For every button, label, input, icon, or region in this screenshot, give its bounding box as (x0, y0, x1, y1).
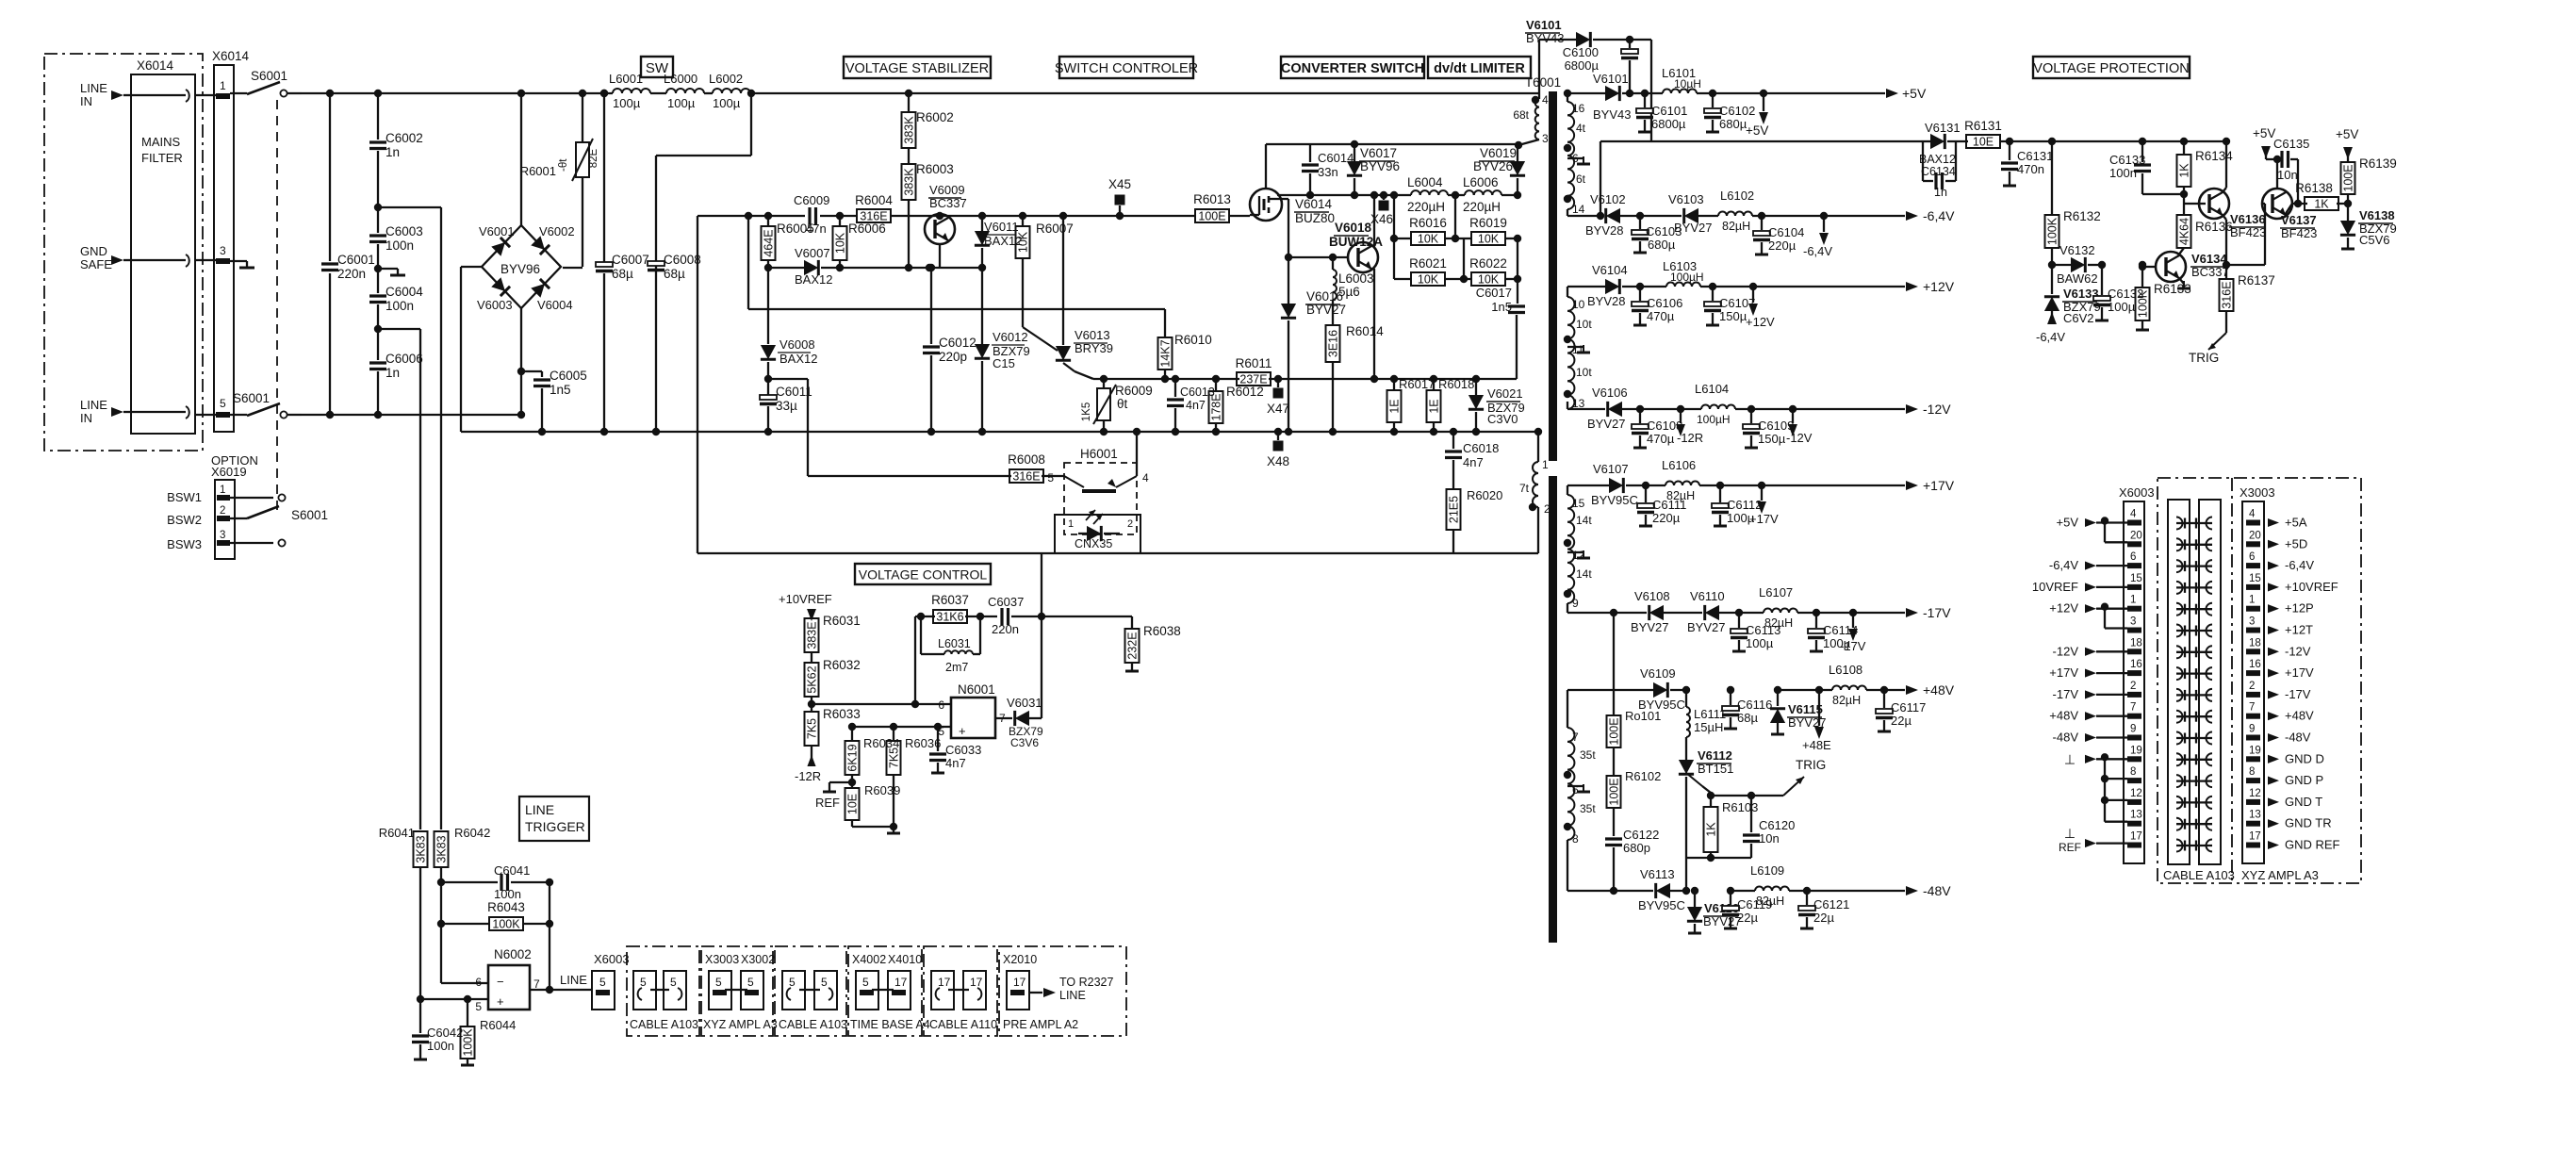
diode V6110 (1687, 589, 1739, 634)
svg-text:383K: 383K (903, 116, 916, 144)
svg-text:L6006: L6006 (1463, 175, 1499, 189)
svg-text:R6134: R6134 (2195, 149, 2233, 163)
svg-text:1: 1 (2130, 595, 2136, 606)
svg-text:R6017: R6017 (1399, 377, 1435, 391)
svg-text:Ro101: Ro101 (1625, 709, 1661, 723)
diode V6007 (768, 246, 840, 287)
svg-text:3: 3 (1542, 132, 1549, 145)
connector X6014 (212, 49, 250, 432)
X6014 pin 3 ground (230, 261, 254, 268)
secondary winding 15-9 (1564, 485, 1593, 613)
svg-text:100µ: 100µ (613, 96, 641, 110)
svg-text:22µ: 22µ (1737, 911, 1758, 925)
svg-text:L6109: L6109 (1750, 863, 1784, 878)
terminal X47 (1267, 375, 1289, 416)
svg-text:-12V: -12V (2053, 644, 2079, 658)
svg-text:2: 2 (2249, 681, 2255, 692)
svg-text:C6104: C6104 (1768, 225, 1804, 239)
resistor R6031 (805, 614, 861, 652)
svg-text:R6137: R6137 (2238, 273, 2275, 287)
svg-text:R6020: R6020 (1467, 488, 1502, 502)
optocoupler LED box CNX35 (1055, 510, 1140, 553)
svg-text:R6002: R6002 (916, 110, 954, 124)
svg-text:-6,4V: -6,4V (2285, 558, 2314, 572)
svg-text:C6007: C6007 (612, 253, 649, 267)
svg-text:SWITCH CONTROLER: SWITCH CONTROLER (1055, 61, 1198, 76)
bridge right wire (563, 267, 582, 269)
svg-text:TIME BASE A4: TIME BASE A4 (850, 1018, 930, 1031)
svg-text:10K: 10K (834, 232, 847, 254)
svg-text:470µ: 470µ (1647, 309, 1675, 323)
svg-text:220n: 220n (337, 267, 366, 281)
svg-text:+17V: +17V (2285, 665, 2314, 680)
svg-text:5: 5 (821, 976, 828, 989)
secondary winding 7-8 (1564, 690, 1597, 891)
svg-text:LINE: LINE (1059, 989, 1086, 1002)
svg-text:-12V: -12V (1786, 431, 1813, 445)
connector X6019 (215, 480, 235, 559)
resistor R6005 (762, 212, 814, 271)
wire protection row (2226, 204, 2265, 265)
svg-text:CONVERTER SWITCH: CONVERTER SWITCH (1281, 61, 1424, 76)
svg-text:10n: 10n (2277, 168, 2298, 182)
wire protection feed rail (1597, 141, 1921, 220)
connector row pin 8 (2127, 766, 2323, 787)
svg-text:10E: 10E (1973, 136, 1994, 149)
diode V6115 (1770, 686, 1827, 734)
svg-text:35t: 35t (1580, 802, 1596, 815)
svg-text:V6019: V6019 (1480, 146, 1517, 160)
svg-text:1: 1 (2249, 595, 2255, 606)
svg-text:17: 17 (894, 976, 908, 989)
inductor L6003 (1329, 254, 1374, 300)
svg-text:6: 6 (2249, 551, 2255, 563)
svg-text:220n: 220n (992, 622, 1019, 636)
svg-text:+5V: +5V (2336, 127, 2358, 141)
resistor R6136 (2177, 204, 2233, 255)
svg-text:5: 5 (789, 976, 796, 989)
feedback loop R6037 (915, 593, 997, 704)
svg-text:BYV95C: BYV95C (1638, 898, 1685, 912)
svg-text:R6008: R6008 (1008, 452, 1045, 467)
svg-text:15: 15 (1572, 497, 1585, 510)
svg-text:X3002: X3002 (741, 953, 775, 966)
svg-text:C6120: C6120 (1759, 818, 1795, 832)
svg-text:R6006: R6006 (848, 222, 886, 236)
-12R branch arrow (1676, 405, 1703, 445)
wire plus input row (848, 723, 951, 731)
svg-text:+5V: +5V (2057, 516, 2079, 530)
svg-text:+: + (497, 994, 504, 1009)
svg-text:18: 18 (2249, 637, 2261, 649)
svg-text:TRIG: TRIG (2189, 351, 2219, 365)
wire LED drive (1038, 553, 1045, 718)
svg-text:C3V0: C3V0 (1487, 412, 1518, 426)
-6.4V rail diode V6102 (1567, 192, 1640, 238)
svg-text:3K83: 3K83 (435, 835, 449, 862)
svg-text:3K83: 3K83 (415, 835, 428, 862)
connector box TIME BASE A4 (848, 946, 930, 1036)
svg-text:L6102: L6102 (1720, 189, 1754, 203)
capacitor C6119 (1722, 887, 1772, 928)
resistor R6022 (1445, 238, 1521, 287)
inductor L6106 (1646, 458, 1699, 502)
svg-text:6800µ: 6800µ (1565, 58, 1600, 73)
svg-text:4: 4 (1542, 93, 1549, 107)
svg-text:X4010: X4010 (888, 953, 922, 966)
+12V rail output (1700, 279, 1955, 294)
svg-text:19: 19 (2130, 745, 2142, 756)
svg-text:TRIG: TRIG (1796, 758, 1826, 772)
svg-text:V6136: V6136 (2230, 212, 2266, 226)
connector row pin 1 (2049, 595, 2313, 616)
-6.4V branch arrow (1803, 212, 1832, 258)
title LINE TRIGGER (519, 796, 589, 841)
svg-text:X2010: X2010 (1003, 953, 1037, 966)
capacitor C6117 (1876, 686, 1926, 731)
resistor R6139 (2336, 127, 2397, 204)
REF connection (815, 782, 852, 810)
svg-text:⊥: ⊥ (2064, 751, 2076, 766)
svg-text:9: 9 (2249, 724, 2255, 735)
X6019 pin 3 (217, 530, 286, 547)
svg-text:237E: 237E (1239, 373, 1267, 386)
svg-text:7K5: 7K5 (806, 718, 819, 739)
label BSW3 (167, 537, 202, 551)
svg-text:C6001: C6001 (337, 253, 375, 267)
svg-text:14: 14 (1572, 203, 1585, 216)
svg-text:R6036: R6036 (905, 736, 941, 750)
svg-text:V6104: V6104 (1592, 263, 1628, 277)
svg-text:X3003: X3003 (2240, 485, 2275, 500)
svg-text:V6009: V6009 (929, 183, 965, 197)
svg-text:GND REF: GND REF (2285, 838, 2340, 852)
svg-text:+5V: +5V (2253, 126, 2275, 140)
svg-text:13: 13 (2130, 810, 2142, 821)
svg-text:X3003: X3003 (705, 953, 739, 966)
svg-text:SAFE: SAFE (80, 257, 112, 271)
connector +5V jumper (2101, 517, 2127, 542)
svg-text:V6112: V6112 (1698, 748, 1732, 763)
X6014 pin 1 (195, 79, 230, 99)
svg-text:L6107: L6107 (1759, 585, 1793, 599)
connector row pin 2 (2053, 681, 2311, 701)
svg-text:X4002: X4002 (852, 953, 886, 966)
svg-text:-17V: -17V (2285, 687, 2311, 701)
svg-text:82E: 82E (588, 148, 599, 168)
+17V rail output (1699, 478, 1955, 493)
svg-text:17: 17 (970, 976, 983, 989)
svg-text:13: 13 (2249, 810, 2261, 821)
svg-text:1n: 1n (386, 145, 400, 159)
capacitor C6012 (923, 264, 976, 435)
svg-text:V6021: V6021 (1487, 386, 1523, 401)
bridge bottom connection (517, 308, 525, 419)
svg-text:MAINS: MAINS (141, 135, 181, 149)
resistor R6002 (902, 90, 954, 148)
secondary winding 16-14 (1564, 93, 1590, 216)
svg-text:BYV27: BYV27 (1306, 303, 1346, 317)
resistor R6013 (1193, 192, 1231, 223)
wire SCR cathode row (1682, 858, 1751, 895)
+5V supply V6137 (2253, 126, 2281, 163)
svg-text:10K: 10K (1418, 273, 1439, 287)
capacitor C6106 (1632, 283, 1682, 325)
+5V rail output (1697, 86, 1927, 101)
svg-text:R6021: R6021 (1409, 256, 1447, 271)
optocoupler H6001 (1042, 447, 1149, 534)
svg-text:BAX12: BAX12 (779, 352, 817, 366)
svg-text:S6001: S6001 (291, 508, 328, 522)
-17V rail output (1797, 605, 1951, 620)
svg-text:R6016: R6016 (1409, 216, 1447, 230)
svg-text:2: 2 (2130, 681, 2136, 692)
svg-text:6: 6 (938, 698, 944, 712)
svg-text:L6106: L6106 (1662, 458, 1696, 472)
svg-text:REF: REF (2059, 841, 2081, 854)
svg-text:+48V: +48V (2285, 709, 2314, 723)
label BSW1 (167, 490, 202, 504)
inductor L6109 (1731, 863, 1789, 908)
diode V6019 (1473, 144, 1525, 199)
svg-text:LINE: LINE (80, 398, 107, 412)
svg-text:7K5: 7K5 (888, 747, 901, 768)
svg-text:35t: 35t (1580, 748, 1596, 762)
svg-text:21E5: 21E5 (1448, 496, 1461, 523)
svg-text:V6106: V6106 (1592, 386, 1628, 400)
capacitor C6009 (794, 193, 829, 236)
svg-text:10K: 10K (1478, 273, 1500, 287)
wire stabilizer rail (697, 215, 1250, 217)
svg-text:L6002: L6002 (709, 72, 743, 86)
transistor V6134 (2139, 252, 2229, 288)
inductor L6000 (664, 72, 704, 110)
capacitor C6112 (1712, 482, 1762, 526)
svg-text:C6112: C6112 (1727, 498, 1762, 512)
wire to R6042 column (378, 207, 441, 829)
svg-text:220µH: 220µH (1463, 200, 1501, 214)
connector box CABLE A110 (924, 946, 997, 1036)
capacitor C6018 (1445, 428, 1499, 489)
svg-text:BT151: BT151 (1698, 762, 1733, 776)
svg-text:C6002: C6002 (386, 131, 423, 145)
connector row pin 7 (2049, 702, 2314, 723)
connector X6003 line (592, 952, 630, 1010)
svg-text:2: 2 (1544, 502, 1551, 516)
svg-text:316E: 316E (1012, 470, 1040, 484)
svg-text:V6011: V6011 (984, 220, 1019, 234)
svg-text:5: 5 (862, 976, 869, 989)
connector box PRE AMPL A2 (999, 946, 1126, 1036)
svg-text:CABLE A103: CABLE A103 (630, 1018, 698, 1031)
svg-text:V6001: V6001 (479, 224, 515, 238)
svg-text:V6131: V6131 (1925, 121, 1961, 135)
transistor V6009 (925, 183, 967, 268)
svg-text:BF423: BF423 (2281, 226, 2317, 240)
svg-text:X45: X45 (1108, 177, 1131, 191)
svg-text:BYV28: BYV28 (1585, 223, 1623, 238)
svg-text:5µ6: 5µ6 (1338, 285, 1360, 299)
resistor R6137 (2189, 265, 2275, 365)
svg-text:C6134: C6134 (1921, 165, 1956, 178)
wire minus input row (812, 700, 951, 708)
feedback winding 7t pins 1-2 (1510, 428, 1551, 553)
inductor L6031 (921, 616, 980, 674)
svg-text:15: 15 (2130, 573, 2142, 584)
svg-text:68µ: 68µ (664, 267, 685, 281)
svg-text:68µ: 68µ (612, 267, 633, 281)
resistor R6011 (1236, 356, 1272, 386)
svg-text:82µH: 82µH (1756, 895, 1784, 908)
wire top rail from S6001 (302, 92, 613, 94)
svg-text:22µ: 22µ (1891, 714, 1911, 728)
svg-text:6K19: 6K19 (846, 744, 860, 771)
label CABLE A103 right (2163, 868, 2235, 882)
svg-text:82µH: 82µH (1722, 220, 1750, 233)
svg-text:10K: 10K (1017, 231, 1030, 253)
svg-text:+12V: +12V (2049, 601, 2078, 616)
svg-text:383E: 383E (806, 621, 819, 649)
svg-text:C6008: C6008 (664, 253, 701, 267)
svg-text:V6108: V6108 (1634, 589, 1670, 603)
svg-text:C6106: C6106 (1647, 296, 1682, 310)
wire pin3 row (1310, 141, 1522, 149)
svg-text:150µ: 150µ (1719, 309, 1747, 323)
svg-text:S6001: S6001 (233, 391, 270, 405)
resistor R6039 (845, 782, 901, 833)
svg-text:680µ: 680µ (1719, 117, 1747, 131)
svg-text:8: 8 (2130, 766, 2136, 778)
resistor R6034 (845, 727, 900, 786)
capacitor C6101 (1636, 90, 1687, 132)
X6014 pin 5 (195, 397, 230, 418)
svg-text:8: 8 (1572, 832, 1579, 846)
connector +12V jumper (2101, 603, 2127, 629)
svg-text:-17V: -17V (1923, 605, 1951, 620)
svg-text:100µH: 100µH (1670, 271, 1704, 284)
svg-text:4n7: 4n7 (1463, 455, 1484, 469)
svg-text:-12V: -12V (2285, 644, 2311, 658)
svg-text:-17V: -17V (2053, 687, 2079, 701)
svg-text:GND P: GND P (2285, 773, 2323, 787)
diode V6138 zener (2340, 204, 2397, 249)
svg-text:L6004: L6004 (1407, 175, 1443, 189)
svg-text:V6101: V6101 (1526, 18, 1562, 32)
svg-text:V6115: V6115 (1788, 702, 1823, 716)
svg-text:C6033: C6033 (945, 743, 981, 757)
cable column left (2168, 500, 2190, 864)
svg-text:464E: 464E (763, 229, 776, 256)
svg-text:T6001: T6001 (1525, 75, 1561, 90)
svg-text:68µ: 68µ (1737, 711, 1758, 725)
svg-text:LINE: LINE (525, 802, 554, 817)
connector box CABLE A103 (1) (627, 946, 699, 1036)
capacitor C6006 (369, 325, 423, 419)
svg-text:C6116: C6116 (1737, 698, 1772, 712)
svg-text:5: 5 (670, 976, 677, 989)
bridge rectifier BYV96 (482, 90, 561, 308)
svg-text:BYV96: BYV96 (1360, 159, 1400, 173)
svg-text:17: 17 (2249, 831, 2261, 843)
svg-text:15: 15 (2249, 573, 2261, 584)
svg-text:178E: 178E (1210, 393, 1223, 420)
inductor L6107 (1739, 585, 1797, 630)
svg-text:V6017: V6017 (1360, 146, 1397, 160)
svg-text:5: 5 (715, 976, 722, 989)
connector row pin 19 (2064, 745, 2324, 766)
svg-text:GND: GND (80, 244, 107, 258)
svg-text:TO R2327: TO R2327 (1059, 976, 1113, 989)
svg-text:100µ: 100µ (2108, 300, 2136, 314)
capacitor C6131 (2001, 138, 2053, 186)
connector row pin 6 (2049, 551, 2314, 572)
svg-text:5: 5 (1047, 471, 1054, 484)
TRIG takeoff (1707, 758, 1826, 799)
terminal X48 (1267, 428, 1289, 468)
wire main bottom rail (461, 431, 1538, 433)
svg-text:CABLE A110: CABLE A110 (929, 1018, 997, 1031)
sense divider column (1605, 609, 1661, 895)
wire stabilizer left drop (697, 216, 698, 553)
svg-text:C6V2: C6V2 (2063, 311, 2094, 325)
svg-text:100E: 100E (1608, 778, 1621, 805)
resistor R6006 (833, 212, 886, 271)
svg-text:12: 12 (2130, 788, 2142, 799)
LINE IN bottom terminal (80, 398, 189, 425)
connector block outer box (2158, 478, 2361, 883)
svg-text:+48V: +48V (2049, 709, 2078, 723)
transistor V6018 (1329, 195, 1383, 383)
-17V branch arrow (1840, 609, 1866, 653)
svg-text:18: 18 (2130, 637, 2142, 649)
resistor R6131 (1964, 119, 2226, 149)
+17V branch arrow (1749, 482, 1779, 526)
capacitor C6001 (321, 90, 375, 419)
svg-text:10E: 10E (846, 794, 860, 814)
svg-text:7t: 7t (1519, 482, 1530, 495)
svg-text:+12V: +12V (1746, 315, 1775, 329)
svg-text:17: 17 (2130, 831, 2142, 843)
-12V rail output (1735, 402, 1951, 417)
svg-text:4: 4 (2130, 509, 2137, 520)
svg-text:R6005: R6005 (777, 222, 814, 236)
svg-text:R6010: R6010 (1174, 333, 1212, 347)
svg-text:REF: REF (815, 796, 840, 810)
capacitor C6103 (1632, 212, 1682, 253)
capacitor C6011 (760, 379, 812, 435)
title VOLTAGE STABILIZER (844, 57, 991, 78)
svg-text:R6132: R6132 (2063, 209, 2101, 223)
svg-text:R6007: R6007 (1036, 222, 1074, 236)
capacitor C6004 (369, 269, 423, 329)
capacitor C6133 (2109, 138, 2151, 194)
svg-text:L6111: L6111 (1694, 707, 1726, 721)
terminal X45 (1108, 177, 1131, 220)
svg-text:LINE: LINE (560, 973, 587, 987)
svg-text:5K62: 5K62 (806, 665, 819, 693)
svg-text:+48V: +48V (1923, 682, 1955, 698)
svg-text:22µ: 22µ (1813, 911, 1834, 925)
svg-text:4n7: 4n7 (945, 756, 966, 770)
svg-text:C6009: C6009 (794, 193, 829, 207)
svg-text:-12R: -12R (1677, 431, 1703, 445)
X6019 pin 1 (217, 484, 286, 501)
svg-text:C6121: C6121 (1813, 897, 1849, 911)
svg-text:V6013: V6013 (1075, 328, 1110, 342)
inductor L6004 (1407, 175, 1448, 214)
capacitor C6134 (1921, 141, 1956, 199)
label OPTION (211, 453, 258, 479)
